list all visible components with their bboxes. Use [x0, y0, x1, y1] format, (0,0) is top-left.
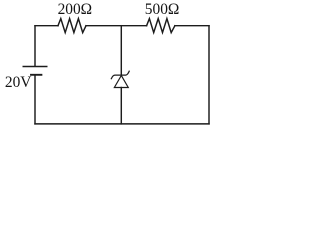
wire left rail lower (battery bottom lead)	[34, 75, 36, 124]
svg-text:200Ω: 200Ω	[58, 1, 93, 18]
battery V1 positive long plate	[23, 66, 47, 68]
wire right rail	[208, 26, 210, 124]
zener diode D1 cathode bar with bent ends	[111, 71, 129, 79]
svg-text:500Ω: 500Ω	[145, 1, 180, 18]
wire middle branch lower (zener anode lead)	[120, 88, 122, 124]
wire left rail upper (battery top lead)	[34, 26, 36, 66]
wire bottom rail	[35, 123, 209, 125]
resistor R2 500Ω zigzag	[147, 19, 175, 33]
wire middle branch upper (zener cathode lead)	[120, 26, 122, 75]
wire top-middle segment	[86, 25, 147, 27]
resistor R1 200Ω zigzag	[58, 19, 86, 33]
wire top-right segment	[175, 25, 209, 27]
svg-text:20V: 20V	[5, 74, 32, 91]
battery V1 negative short plate	[31, 74, 41, 76]
wire top-left segment	[35, 25, 58, 27]
zener diode D1 anode triangle	[114, 76, 128, 88]
